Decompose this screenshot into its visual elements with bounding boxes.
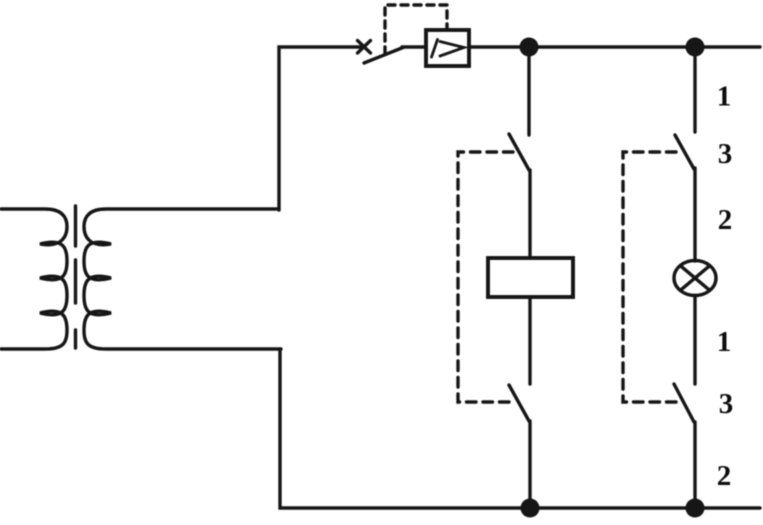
contact K2 blade <box>509 385 529 421</box>
wire breaker to relay box <box>402 45 426 48</box>
dashed linkage box of switch S <box>623 152 680 402</box>
contact K1 blade <box>509 134 529 170</box>
contact S2 blade <box>674 384 694 422</box>
svg-text:2: 2 <box>717 460 732 492</box>
wire node A down to contact K1 <box>527 47 530 135</box>
svg-text:1: 1 <box>717 81 732 113</box>
svg-text:2: 2 <box>718 204 733 236</box>
wire contact K1 to coil K <box>528 170 531 258</box>
transformer T1 primary winding <box>1 209 67 349</box>
breaker QF blade <box>364 48 403 64</box>
svg-text:3: 3 <box>718 138 733 170</box>
transformer T1 core <box>74 206 77 348</box>
contact S1 blade <box>675 135 694 169</box>
wire contact S2 to bottom node D <box>693 422 696 508</box>
svg-text:1: 1 <box>717 326 732 358</box>
wire contact K2 to bottom node C <box>528 421 531 508</box>
wire top-left riser <box>279 47 361 210</box>
wire node B to right edge <box>695 45 760 48</box>
overcurrent relay U1 box <box>426 30 469 66</box>
dashed linkage box of contactor K <box>458 152 516 402</box>
junction node D <box>686 499 705 518</box>
wire coil K to contact K2 <box>528 297 531 384</box>
junction node B <box>686 38 705 57</box>
overcurrent trip linkage (dashed) <box>385 5 447 54</box>
junction node C <box>521 499 540 518</box>
svg-text:3: 3 <box>719 388 734 420</box>
transformer T1 secondary winding <box>84 209 281 349</box>
wire node A to node B <box>529 45 695 48</box>
relay coil K <box>488 258 573 297</box>
lamp HL <box>674 261 716 296</box>
wire lamp to contact S2 <box>693 296 696 385</box>
wire relay box to node A <box>469 45 529 48</box>
wire bottom riser from transformer <box>280 349 760 508</box>
wire node B down to contact S1 <box>693 47 696 132</box>
junction node A <box>520 38 539 57</box>
breaker QF fixed contact x-mark <box>358 41 371 54</box>
wire contact S1 to lamp <box>693 168 696 261</box>
overcurrent relay I> symbol <box>432 40 465 58</box>
